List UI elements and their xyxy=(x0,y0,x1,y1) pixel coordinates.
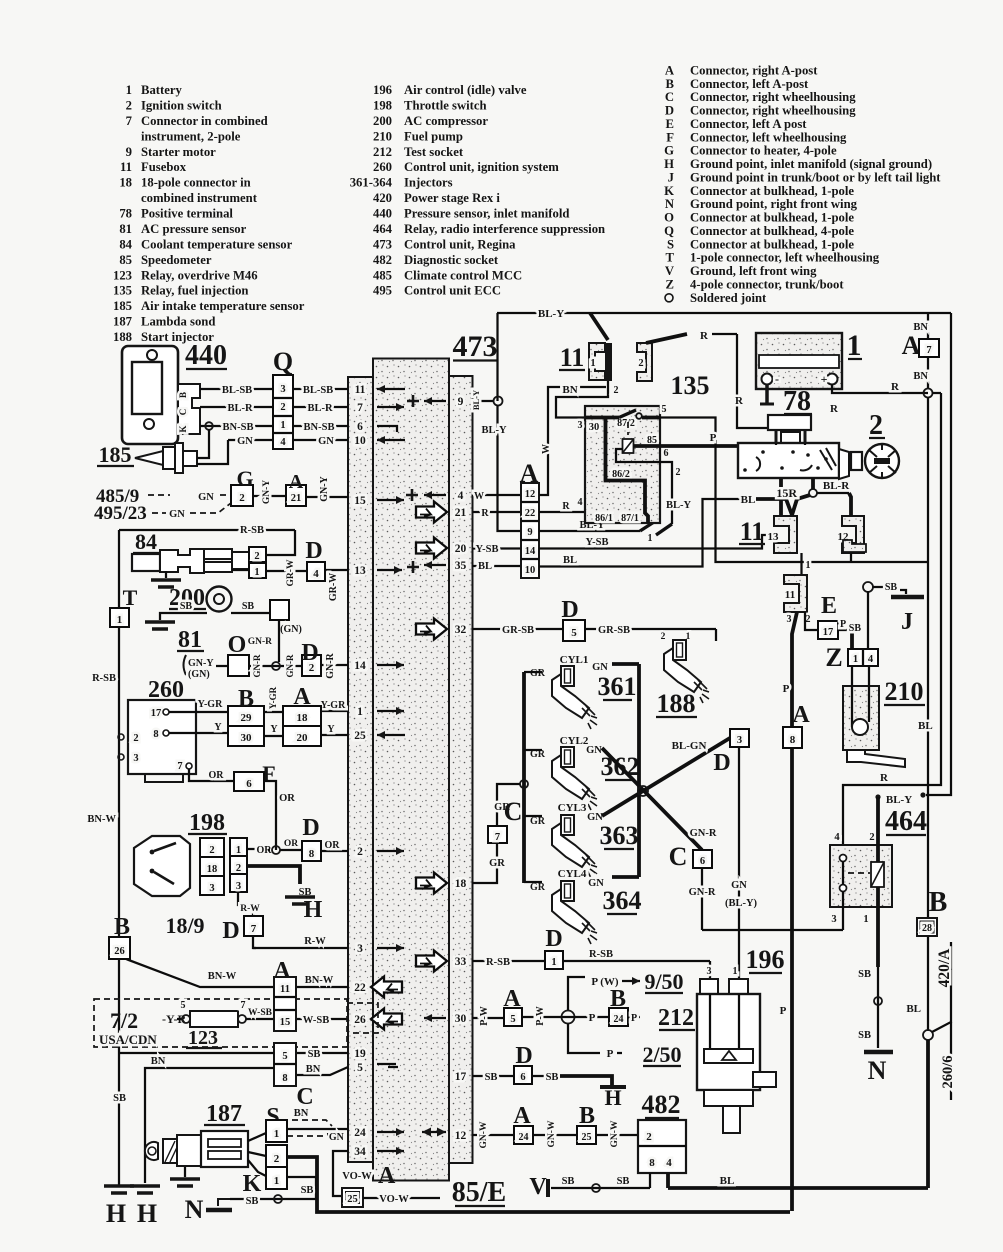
svg-text:SB: SB xyxy=(546,1072,559,1083)
ignition switch rotor xyxy=(865,444,899,478)
connector D box 4 xyxy=(307,562,325,581)
connector A box 25 xyxy=(342,1188,363,1207)
wire D1 to D4 xyxy=(266,570,307,572)
svg-text:A: A xyxy=(902,331,921,360)
svg-text:BL-Y: BL-Y xyxy=(538,308,564,320)
svg-text:7: 7 xyxy=(241,1000,246,1011)
svg-text:25: 25 xyxy=(347,1194,358,1205)
wire C5 to bar pin19 xyxy=(295,1052,297,1054)
wire GR joint to C7 xyxy=(497,784,520,826)
svg-text:8: 8 xyxy=(649,1157,655,1169)
svg-text:25: 25 xyxy=(582,1132,592,1143)
connector A box 24 xyxy=(514,1126,533,1144)
connector D box 1 xyxy=(545,951,563,969)
198 switch cells 2/18/3 xyxy=(200,838,224,857)
svg-text:BN: BN xyxy=(913,322,928,333)
svg-text:A: A xyxy=(520,459,539,488)
wire joint down to Z4 xyxy=(867,591,869,649)
svg-text:12: 12 xyxy=(455,1130,467,1142)
wire C8 BN to H ground 2 xyxy=(145,1068,274,1183)
connector D box 8 xyxy=(302,841,321,861)
wire 185 to GN xyxy=(197,440,228,464)
svg-text:C: C xyxy=(296,1084,313,1110)
wire inner box bottom xyxy=(702,929,843,931)
svg-text:14: 14 xyxy=(525,546,536,557)
svg-text:GN-R: GN-R xyxy=(248,637,272,647)
soldered joint battery R/BN xyxy=(924,389,933,398)
svg-text:BL: BL xyxy=(478,561,492,572)
relay 135 pin30 internal wire xyxy=(585,416,619,420)
svg-text:GN-W: GN-W xyxy=(547,1120,557,1147)
wire BL-Y top border xyxy=(497,312,951,314)
svg-text:D: D xyxy=(302,815,319,841)
wire BL-Y stub xyxy=(875,794,880,799)
soldered joint V SB xyxy=(592,1184,600,1192)
svg-text:4: 4 xyxy=(280,437,286,448)
wire K1 SB to N wire xyxy=(287,1177,316,1199)
svg-text:187: 187 xyxy=(113,315,133,329)
464 pin1 wire down xyxy=(876,907,880,967)
svg-text:Pressure sensor, inlet manifol: Pressure sensor, inlet manifold xyxy=(404,207,569,221)
svg-text:SB: SB xyxy=(180,601,193,612)
svg-text:81: 81 xyxy=(178,627,202,653)
svg-text:P: P xyxy=(589,1012,596,1024)
lambda sond 187 body xyxy=(145,1142,158,1160)
svg-text:combined instrument: combined instrument xyxy=(141,191,258,205)
wire B24 to 212 xyxy=(628,1016,640,1018)
svg-text:OR: OR xyxy=(279,793,295,804)
wire bar pin 22 BN-W xyxy=(296,986,348,988)
svg-text:J: J xyxy=(901,609,913,635)
injector 363 xyxy=(552,815,597,878)
wire bar pin 30 P-W xyxy=(473,1017,505,1019)
connector D box 3 xyxy=(730,729,749,747)
wire bar pin 32 GR-SB xyxy=(473,628,564,630)
svg-text:85: 85 xyxy=(119,253,132,267)
fuse clip 11 xyxy=(784,575,807,612)
svg-text:D: D xyxy=(665,104,674,118)
wire fuse to A15 xyxy=(246,1018,274,1020)
svg-text:Air control (idle) valve: Air control (idle) valve xyxy=(404,83,527,97)
svg-text:19: 19 xyxy=(354,1048,366,1060)
svg-text:364: 364 xyxy=(603,886,642,915)
connector B cells 29/30 xyxy=(228,706,264,726)
svg-text:11: 11 xyxy=(560,343,585,372)
X diagonal GN to C6 xyxy=(602,748,702,850)
junction box above 81 xyxy=(270,600,289,620)
wire F6 down to OR joint xyxy=(264,781,276,850)
svg-text:18: 18 xyxy=(207,864,218,875)
svg-text:30: 30 xyxy=(241,732,253,744)
connector A box 21 xyxy=(286,485,306,506)
svg-text:2/50: 2/50 xyxy=(642,1042,681,1067)
svg-text:420/A: 420/A xyxy=(936,948,953,988)
svg-text:R-SB: R-SB xyxy=(240,525,264,536)
svg-text:13: 13 xyxy=(354,565,366,577)
wire D2 to bar pin 14 xyxy=(320,664,322,666)
wire switch to 15R joint xyxy=(811,478,815,489)
svg-text:7/2: 7/2 xyxy=(110,1008,138,1033)
svg-text:11: 11 xyxy=(355,384,366,396)
svg-text:Ground point, right front wing: Ground point, right front wing xyxy=(690,197,858,211)
svg-text:20: 20 xyxy=(297,732,309,744)
svg-text:Air intake temperature sensor: Air intake temperature sensor xyxy=(141,299,305,313)
svg-text:6: 6 xyxy=(246,778,252,790)
svg-text:3: 3 xyxy=(357,943,363,955)
svg-text:485: 485 xyxy=(373,268,392,282)
svg-text:E: E xyxy=(821,593,837,619)
svg-text:N: N xyxy=(665,197,674,211)
wire bar pin 18 GR corner xyxy=(473,843,498,883)
wire V SB xyxy=(551,1187,650,1189)
svg-text:198: 198 xyxy=(189,810,225,836)
svg-text:9: 9 xyxy=(458,396,464,408)
svg-text:GN-Y: GN-Y xyxy=(188,658,214,669)
svg-text:18-pole connector in: 18-pole connector in xyxy=(141,176,251,190)
svg-text:85/E: 85/E xyxy=(452,1177,506,1208)
svg-text:BL-R: BL-R xyxy=(307,403,333,414)
svg-text:R: R xyxy=(830,403,839,415)
svg-text:Lambda sond: Lambda sond xyxy=(141,315,215,329)
svg-text:Ignition switch: Ignition switch xyxy=(141,98,222,112)
wire A24 to B25 xyxy=(533,1134,577,1136)
svg-text:R: R xyxy=(891,381,900,393)
svg-text:SB: SB xyxy=(858,969,871,980)
svg-text:Throttle switch: Throttle switch xyxy=(404,98,487,112)
svg-text:2: 2 xyxy=(661,632,666,642)
connector T box 1 xyxy=(110,608,129,627)
svg-text:H: H xyxy=(106,1199,126,1228)
svg-text:N: N xyxy=(868,1056,887,1085)
wire bar pin 24 from S1 solid xyxy=(287,1128,348,1130)
svg-text:GN: GN xyxy=(198,492,214,503)
464 pin4 internal xyxy=(840,855,847,862)
wire 78 posts to switch xyxy=(775,443,777,445)
wire D7 to bar pin 3 xyxy=(253,936,256,948)
svg-text:Connector, left A-post: Connector, left A-post xyxy=(690,77,809,91)
svg-text:(GN): (GN) xyxy=(188,669,210,680)
svg-text:2: 2 xyxy=(209,845,214,856)
wire bar pin 10 GN xyxy=(300,439,348,441)
soldered joint GN-R xyxy=(272,662,280,670)
svg-text:(BL-Y): (BL-Y) xyxy=(725,898,758,909)
svg-text:T: T xyxy=(666,251,675,265)
svg-text:A: A xyxy=(293,684,311,710)
wire BL-R to fuse 12 xyxy=(817,492,849,494)
svg-text:1: 1 xyxy=(357,706,363,718)
svg-text:15R: 15R xyxy=(776,486,797,500)
USA/CDN dashed box xyxy=(94,999,347,1047)
coolant temperature sensor 84 body xyxy=(132,554,160,571)
svg-text:Y-GR: Y-GR xyxy=(198,699,223,710)
wire A12 W up to fuse 1 xyxy=(539,387,606,495)
svg-text:7: 7 xyxy=(177,761,182,772)
connector A cells 12/22/9/14/10 xyxy=(521,483,539,578)
svg-text:R-W: R-W xyxy=(240,904,260,914)
wire bar pin 20 Y-SB xyxy=(473,547,522,549)
wire BL-Y to fuse1 xyxy=(590,313,608,340)
svg-text:9: 9 xyxy=(527,527,532,538)
connector D 2-pole boxes 2/1 xyxy=(249,547,266,562)
svg-text:Connector in combined: Connector in combined xyxy=(141,114,268,128)
svg-text:Positive terminal: Positive terminal xyxy=(141,207,233,221)
connector O box xyxy=(228,655,249,676)
svg-text:5: 5 xyxy=(662,404,667,415)
svg-text:188: 188 xyxy=(113,330,132,344)
svg-text:17: 17 xyxy=(455,1071,467,1083)
svg-text:A: A xyxy=(792,702,810,728)
wire bar pin 7 BL-R xyxy=(300,406,348,408)
473 left pin column xyxy=(348,377,373,1162)
svg-text:P: P xyxy=(710,432,717,444)
svg-text:210: 210 xyxy=(885,677,924,706)
wire A9 BL-Y to relay 87/1 xyxy=(539,530,640,532)
ground left of 200 xyxy=(160,613,166,620)
svg-text:R: R xyxy=(562,501,570,512)
svg-text:P: P xyxy=(631,1013,637,1024)
svg-text:H: H xyxy=(137,1199,157,1228)
svg-text:CYL4: CYL4 xyxy=(558,868,587,880)
wire D3 down to 196 pin1 xyxy=(738,747,740,994)
svg-text:W: W xyxy=(541,444,552,454)
svg-text:USA/CDN: USA/CDN xyxy=(99,1032,157,1047)
wire B26 to BN-W run xyxy=(126,959,274,987)
svg-text:440: 440 xyxy=(373,207,392,221)
svg-text:R-SB: R-SB xyxy=(92,673,116,684)
wire 200 to junction box xyxy=(231,612,270,614)
svg-text:C: C xyxy=(504,797,523,826)
battery terminal minus xyxy=(762,374,773,385)
svg-text:4: 4 xyxy=(834,832,840,843)
connector D box 7 xyxy=(244,916,263,936)
fuse clip 2 xyxy=(637,343,652,381)
svg-text:363: 363 xyxy=(600,821,639,850)
battery terminal plus xyxy=(827,374,838,385)
svg-text:Fuel pump: Fuel pump xyxy=(404,129,463,143)
svg-text:OR: OR xyxy=(284,839,298,849)
svg-text:W-SB: W-SB xyxy=(248,1008,273,1018)
wire relay 85 pin6 to fuse13 xyxy=(634,446,782,526)
ground H left 2 xyxy=(130,1186,160,1193)
wire bar pin 2 OR xyxy=(321,850,348,852)
soldered joint OR xyxy=(272,846,280,854)
svg-text:30: 30 xyxy=(455,1013,467,1025)
relay 135 coil xyxy=(623,439,634,453)
relay 135 box xyxy=(585,406,660,523)
svg-text:24: 24 xyxy=(614,1014,624,1025)
pressure sensor 440 body xyxy=(122,346,178,444)
81 sensor brace and label GN-Y (GN) xyxy=(184,655,187,675)
connector A cells 18/20 xyxy=(283,706,321,726)
svg-text:185: 185 xyxy=(99,442,132,467)
wire bar pin 1 Y-GR xyxy=(321,710,348,712)
svg-text:R: R xyxy=(735,395,744,407)
wire BL-Y joint down to A9 xyxy=(498,405,522,531)
connector E box 17 xyxy=(818,621,838,639)
soldered joint X xyxy=(638,786,648,796)
svg-text:3: 3 xyxy=(831,914,836,925)
84 ground xyxy=(165,571,167,578)
svg-text:7: 7 xyxy=(495,832,500,843)
svg-text:7: 7 xyxy=(126,114,133,128)
svg-text:Relay, overdrive M46: Relay, overdrive M46 xyxy=(141,268,258,282)
svg-text:B: B xyxy=(114,914,130,940)
svg-text:198: 198 xyxy=(373,98,392,112)
svg-text:Fusebox: Fusebox xyxy=(141,160,187,174)
wire D4 to bar pin13 xyxy=(324,569,325,571)
svg-text:B: B xyxy=(579,1103,595,1129)
svg-text:OR: OR xyxy=(325,840,341,851)
svg-text:5: 5 xyxy=(510,1014,515,1025)
svg-text:86/1: 86/1 xyxy=(595,513,613,524)
svg-text:Z: Z xyxy=(666,277,674,291)
svg-text:SB: SB xyxy=(113,1093,126,1104)
svg-text:6: 6 xyxy=(664,448,669,459)
svg-text:2: 2 xyxy=(236,863,241,874)
svg-text:6: 6 xyxy=(520,1072,525,1083)
svg-text:Connector at bulkhead, 1-pole: Connector at bulkhead, 1-pole xyxy=(690,211,854,225)
svg-text:2: 2 xyxy=(806,614,811,625)
soldered joint J xyxy=(863,582,873,592)
relay 464 box xyxy=(830,845,892,907)
svg-text:22: 22 xyxy=(354,982,366,994)
dashed wire 485/9 GN xyxy=(148,494,170,496)
svg-text:1: 1 xyxy=(733,966,738,977)
svg-text:D: D xyxy=(515,1043,532,1069)
svg-text:8: 8 xyxy=(282,1073,287,1084)
wire R from battery joint to 464 xyxy=(843,393,941,845)
wire BL joint down to bottom xyxy=(926,1040,930,1188)
wire fuse2 to R xyxy=(646,334,687,343)
svg-text:Connector at bulkhead, 4-pole: Connector at bulkhead, 4-pole xyxy=(690,224,854,238)
connector F box 6 xyxy=(234,772,264,791)
svg-text:17: 17 xyxy=(823,627,834,638)
svg-text:2: 2 xyxy=(676,467,681,478)
svg-text:Connector, left A post: Connector, left A post xyxy=(690,117,807,131)
svg-text:7: 7 xyxy=(926,345,931,356)
svg-text:CYL2: CYL2 xyxy=(560,735,589,747)
svg-text:W-SB: W-SB xyxy=(303,1015,329,1026)
svg-text:A: A xyxy=(289,471,304,493)
svg-text:GR: GR xyxy=(489,858,505,869)
ignition switch 2 body xyxy=(738,443,839,478)
wire A7 BN to joint xyxy=(927,357,929,389)
svg-text:2: 2 xyxy=(869,832,874,843)
svg-text:123: 123 xyxy=(188,1027,218,1049)
svg-text:188: 188 xyxy=(657,689,696,718)
ignition switch socket xyxy=(839,449,849,479)
wire bar pin 17 SB xyxy=(473,1075,515,1077)
464 resistor xyxy=(871,862,884,887)
X diagonal BL-GN to D3 xyxy=(602,738,730,816)
svg-text:BL-Y: BL-Y xyxy=(666,500,692,511)
svg-text:Y-SB: Y-SB xyxy=(586,537,609,548)
svg-text:GR-SB: GR-SB xyxy=(598,625,630,636)
wire A15 to bar pin 26 xyxy=(295,1018,297,1020)
wire C6 down xyxy=(701,868,703,930)
fuse clip 12 xyxy=(842,516,864,553)
svg-text:GN-Y: GN-Y xyxy=(319,475,330,501)
svg-text:11: 11 xyxy=(785,589,795,601)
svg-text:2: 2 xyxy=(239,492,245,504)
wire bar pin 5 BN diagonal xyxy=(296,1067,348,1075)
svg-text:482: 482 xyxy=(373,253,392,267)
svg-text:32: 32 xyxy=(455,624,467,636)
svg-text:1: 1 xyxy=(853,654,858,665)
wire bar pin 15 GN-Y xyxy=(305,496,348,498)
wire D5 to 188 xyxy=(585,628,716,630)
svg-text:Y-GR: Y-GR xyxy=(268,686,278,709)
svg-text:86/2: 86/2 xyxy=(612,469,630,480)
connector G box 2 xyxy=(231,485,253,506)
473 shielded block arrows xyxy=(416,502,447,523)
svg-text:SB: SB xyxy=(246,1196,259,1207)
svg-text:R: R xyxy=(880,772,889,784)
connector C box 7 xyxy=(488,826,507,843)
svg-text:-: - xyxy=(775,372,779,386)
wire relay pin5 P xyxy=(660,418,927,563)
svg-text:AC pressure sensor: AC pressure sensor xyxy=(141,222,247,236)
svg-text:GN: GN xyxy=(169,509,185,520)
wire bar pin 33 R-SB xyxy=(473,960,546,962)
wire bar pin 12 GN-W xyxy=(473,1134,515,1136)
svg-text:5: 5 xyxy=(282,1051,287,1062)
svg-text:78: 78 xyxy=(119,207,132,221)
svg-text:Power stage Rex i: Power stage Rex i xyxy=(404,191,500,205)
svg-text:11: 11 xyxy=(740,517,765,546)
wire A21 to bar pin 15 xyxy=(305,496,306,498)
svg-text:2: 2 xyxy=(274,1153,280,1165)
wire 260-7 to F6 xyxy=(189,769,205,781)
svg-text:2: 2 xyxy=(638,358,643,369)
AC compressor clutch 200 xyxy=(207,587,232,612)
connector A box 7 xyxy=(919,339,939,357)
svg-text:GR: GR xyxy=(530,882,546,893)
svg-text:D: D xyxy=(222,918,239,944)
svg-text:Control unit, Regina: Control unit, Regina xyxy=(404,237,516,251)
svg-text:K: K xyxy=(178,425,188,432)
left riser wire R-SB/BN-W/SB xyxy=(118,530,120,608)
wire C8 to bar pin 5 xyxy=(295,1074,297,1076)
svg-text:GN-Y: GN-Y xyxy=(262,480,272,504)
svg-text:GR: GR xyxy=(530,668,546,679)
svg-text:Starter motor: Starter motor xyxy=(141,145,216,159)
svg-text:Y: Y xyxy=(270,724,278,735)
svg-text:CYL1: CYL1 xyxy=(560,654,589,666)
svg-text:GN-R: GN-R xyxy=(690,828,717,839)
svg-text:Connector at bulkhead, 1-pole: Connector at bulkhead, 1-pole xyxy=(690,184,854,198)
svg-text:+: + xyxy=(821,372,828,386)
svg-text:Ground, left front wing: Ground, left front wing xyxy=(690,264,817,278)
svg-text:3: 3 xyxy=(209,883,214,894)
svg-text:84: 84 xyxy=(135,529,157,554)
wire D6 SB to ground H xyxy=(532,1075,545,1077)
svg-text:B: B xyxy=(929,887,948,918)
air intake temperature sensor 185 xyxy=(135,451,163,465)
svg-text:BN: BN xyxy=(562,384,577,396)
svg-text:1: 1 xyxy=(648,533,653,544)
svg-text:5: 5 xyxy=(571,627,577,639)
svg-text:1: 1 xyxy=(280,420,285,431)
connector C cells 5/8 xyxy=(274,1043,296,1086)
relay 135 contact xyxy=(619,410,636,418)
svg-text:D: D xyxy=(305,538,322,564)
wire 198-3 to D7 xyxy=(238,892,253,916)
svg-text:Relay, radio interference supp: Relay, radio interference suppression xyxy=(404,222,605,236)
svg-text:34: 34 xyxy=(354,1146,366,1158)
svg-text:210: 210 xyxy=(373,129,392,143)
svg-text:87/2: 87/2 xyxy=(617,418,635,429)
